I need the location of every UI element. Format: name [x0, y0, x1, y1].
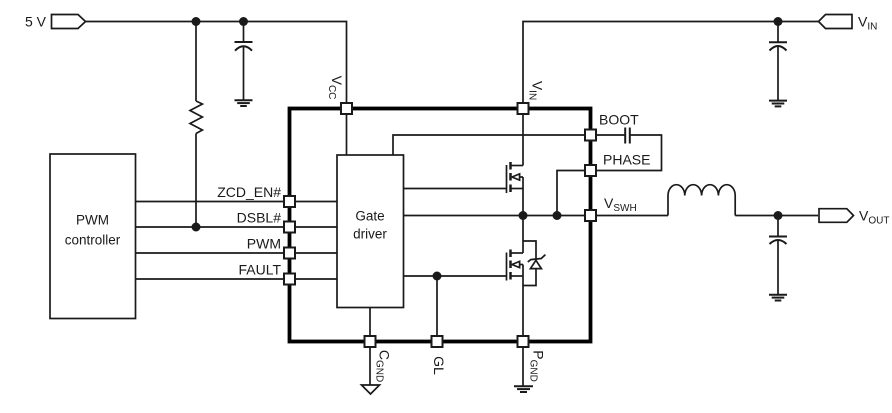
node junction 5V/resistor — [192, 17, 201, 26]
wire switch node to Q2 drain — [522, 216, 524, 254]
wire cap C3 bottom lead — [777, 240, 779, 295]
pin PGND — [518, 336, 529, 347]
wire VIN pin to Q1 drain — [522, 115, 524, 166]
label VCC (rotated) — [326, 76, 345, 100]
wire GL node to GL pin — [436, 276, 438, 335]
pin PHASE — [585, 165, 596, 176]
pin VIN — [518, 103, 529, 114]
wire cap C2 top lead — [777, 22, 779, 43]
wire PWM — [136, 252, 338, 254]
wire cap C2 bottom lead — [777, 46, 779, 101]
label GL (rotated) — [431, 356, 447, 375]
pin DSBL# — [284, 222, 295, 233]
node junction GL — [433, 272, 442, 281]
inductor L1 — [668, 185, 735, 216]
wire boot feedback (gate driver top to BOOT pin) — [393, 135, 584, 155]
connector flag VOUT — [819, 209, 854, 223]
block PWM controller — [50, 154, 136, 319]
pin GL — [432, 336, 443, 347]
svg-text:Gate: Gate — [355, 209, 384, 224]
node junction 5V/capacitor — [239, 17, 248, 26]
connector flag 5V — [52, 15, 86, 29]
svg-text:BOOT: BOOT — [599, 112, 639, 128]
node junction switch/PHASE — [553, 211, 562, 220]
pin BOOT — [585, 130, 596, 141]
diode D1 (Q2 body, zener style) — [523, 241, 545, 286]
capacitor C1 (5V bypass) — [235, 42, 253, 51]
capacitor C4 (bootstrap) — [625, 128, 630, 144]
wire inductor to VOUT — [735, 215, 818, 217]
wire gate driver to Q1 gate — [404, 188, 507, 190]
label CGND (rotated) — [374, 350, 393, 382]
svg-text:PWM: PWM — [76, 213, 109, 228]
svg-text:PHASE: PHASE — [603, 152, 650, 168]
ground symbol (5V bypass) — [235, 100, 253, 106]
wire Q1 source to switch node — [522, 189, 524, 216]
capacitor C3 (output) — [769, 237, 787, 245]
IC body (driver+FETs) — [290, 109, 591, 342]
wire cap C4 to PHASE — [597, 135, 662, 171]
transistor Q2 (low-side NMOS) — [507, 250, 524, 281]
pin VSWH — [585, 210, 596, 221]
wire VCC pin to gate driver — [346, 109, 348, 156]
wire Q2 source to PGND pin — [522, 276, 524, 335]
pin PWM — [284, 248, 295, 259]
wire switch node (gate driver to VSWH pin) — [404, 215, 585, 217]
pin ZCD_EN# — [284, 196, 295, 207]
wire resistor top lead — [195, 22, 197, 102]
wire cap C1 top lead — [243, 22, 245, 43]
capacitor C2 (VIN bypass) — [769, 42, 787, 50]
wire PHASE to switch node — [557, 171, 584, 216]
node junction VOUT/capacitor — [774, 211, 783, 220]
svg-text:GL: GL — [431, 356, 447, 375]
transistor Q1 (high-side NMOS) — [507, 162, 524, 193]
svg-text:ZCD_EN#: ZCD_EN# — [217, 184, 281, 200]
wire FAULT — [136, 278, 338, 280]
wire 5V rail — [85, 22, 347, 103]
wire VSWH to inductor — [597, 215, 668, 217]
wire ZCD_EN# — [136, 201, 338, 203]
svg-text:5 V: 5 V — [25, 14, 47, 30]
wire gate driver to CGND pin — [369, 308, 371, 336]
wire CGND pin to arrow — [369, 348, 371, 385]
wire gate driver to Q2 gate — [404, 275, 507, 277]
pin CGND — [365, 336, 376, 347]
svg-text:controller: controller — [65, 233, 121, 248]
wire resistor bottom lead — [195, 134, 197, 228]
label VIN pin (rotated) — [527, 81, 546, 100]
wire cap C3 top lead — [777, 216, 779, 237]
svg-text:FAULT: FAULT — [238, 262, 281, 278]
pin VCC — [341, 103, 352, 114]
pin FAULT — [284, 274, 295, 285]
ground symbol (PGND) — [514, 386, 533, 392]
wire VIN rail — [523, 22, 818, 109]
wire BOOT to cap C4 — [597, 134, 625, 136]
ground symbol (output cap) — [769, 295, 787, 301]
node junction resistor/DSBL# — [192, 223, 201, 232]
ground symbol (VIN bypass) — [769, 101, 787, 107]
label PGND (rotated) — [528, 350, 547, 382]
wire DSBL# — [136, 226, 338, 228]
svg-text:DSBL#: DSBL# — [237, 210, 282, 226]
svg-text:PWM: PWM — [247, 236, 281, 252]
wire PGND pin to ground — [522, 348, 524, 386]
node junction VIN/capacitor — [774, 17, 783, 26]
block Gate driver — [337, 155, 404, 308]
svg-text:driver: driver — [353, 227, 387, 242]
wire cap C1 bottom lead — [243, 46, 245, 100]
node junction Q1 source / Q2 drain — [519, 211, 528, 220]
ground arrow (CGND) — [362, 385, 380, 394]
resistor R1 — [190, 101, 202, 134]
connector flag VIN — [819, 15, 853, 29]
